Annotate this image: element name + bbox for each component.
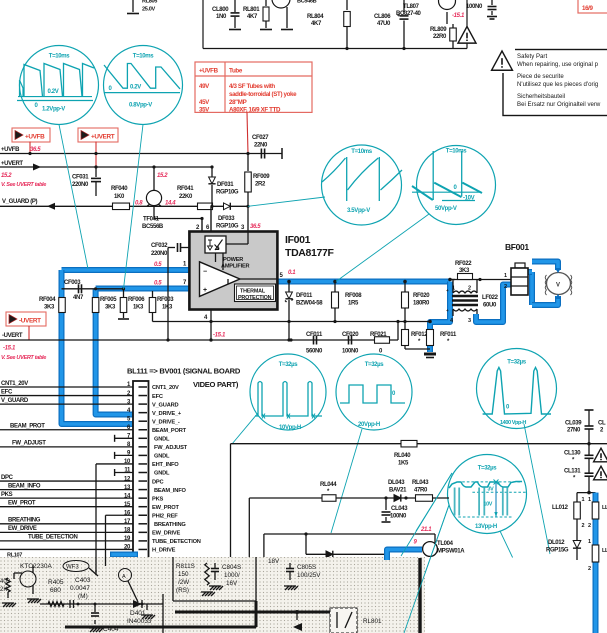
svg-text:BC556B: BC556B [142,224,164,230]
svg-text:0.8Vpp-V: 0.8Vpp-V [129,103,152,109]
svg-text:DL043: DL043 [388,480,405,486]
svg-text:3: 3 [468,318,471,324]
svg-text:RF003: RF003 [157,297,174,303]
svg-text:BZW04-58: BZW04-58 [296,301,323,307]
svg-text:LL0: LL0 [602,505,607,511]
svg-text:N'utilisez que les pieces d'or: N'utilisez que les pieces d'orig [517,81,598,88]
svg-text:3.5Vpp-V: 3.5Vpp-V [347,208,370,214]
svg-text:100N0: 100N0 [466,4,483,10]
svg-text:Tube: Tube [229,68,243,75]
svg-text:0.0047: 0.0047 [70,585,90,592]
svg-text:27N0: 27N0 [567,428,581,434]
svg-text:TL807: TL807 [403,4,420,10]
svg-text:4K7: 4K7 [247,14,258,20]
svg-text:CL800: CL800 [212,7,229,13]
svg-text:CF027: CF027 [252,135,269,141]
svg-text:RF040: RF040 [111,186,128,192]
svg-text:0.5: 0.5 [154,281,162,287]
svg-text:DL012: DL012 [548,540,565,546]
svg-text:T=32µs: T=32µs [365,362,385,368]
svg-text:0.2V: 0.2V [130,85,141,91]
svg-text:BREATHING: BREATHING [8,518,41,524]
svg-text:BEAM_PROT: BEAM_PROT [10,424,45,430]
svg-text:BL111 => BV001 (SIGNAL BOARD: BL111 => BV001 (SIGNAL BOARD [127,367,241,376]
svg-text:22K0: 22K0 [179,194,193,200]
svg-text:/2W: /2W [178,579,189,586]
svg-text:GNDL: GNDL [154,437,170,443]
svg-text:16V: 16V [226,580,238,587]
svg-text:25.0V: 25.0V [142,7,155,13]
svg-text:DPC: DPC [152,479,164,485]
svg-text:H_DRIVE: H_DRIVE [152,548,176,554]
svg-text:VIDEO PART): VIDEO PART) [193,380,239,389]
svg-text:16/9: 16/9 [582,5,594,12]
svg-text:100N0: 100N0 [390,514,407,520]
svg-text:V_GUARD (P): V_GUARD (P) [2,199,38,205]
svg-text:35V: 35V [199,107,210,114]
svg-text:FW_ADJUST: FW_ADJUST [12,441,46,447]
svg-text:1: 1 [588,539,591,545]
svg-text:4/3 SF Tubes with: 4/3 SF Tubes with [229,83,275,90]
svg-text:2: 2 [504,284,507,290]
svg-text:220N0: 220N0 [151,251,168,257]
svg-text:POWER: POWER [223,257,243,263]
svg-text:LL0: LL0 [602,548,607,554]
svg-text:T=10ms: T=10ms [446,149,467,155]
svg-text:RL805: RL805 [142,0,157,5]
svg-text:PHI2_REF: PHI2_REF [152,513,178,519]
svg-text:36.5: 36.5 [30,147,41,153]
svg-text:RF008: RF008 [345,293,362,299]
svg-text:RL801: RL801 [243,7,260,13]
svg-text:BF001: BF001 [505,242,529,252]
svg-text:1400 Vpp-H: 1400 Vpp-H [500,420,526,426]
svg-text:CL130: CL130 [564,451,581,457]
svg-text:15.2: 15.2 [1,173,12,179]
svg-text:10V: 10V [484,502,493,508]
svg-text:Piece de securite: Piece de securite [517,73,564,80]
svg-text:MPSW01A: MPSW01A [437,549,465,555]
svg-text:CF031: CF031 [72,175,89,181]
svg-text:RF020: RF020 [413,293,430,299]
svg-text:GNDL: GNDL [154,471,170,477]
svg-text:C403: C403 [75,577,91,584]
svg-text:TL004: TL004 [437,541,454,547]
svg-text:−: − [203,269,207,276]
svg-text:CL806: CL806 [374,14,391,20]
svg-text:DF033: DF033 [218,216,235,222]
svg-text:GNDL: GNDL [154,454,170,460]
svg-text:+UVERT: +UVERT [1,161,23,167]
svg-text:0.5: 0.5 [154,262,162,268]
svg-text:1K5: 1K5 [398,461,409,467]
svg-text:47R0: 47R0 [414,488,428,494]
svg-text:CL131: CL131 [564,469,581,475]
svg-text:560N0: 560N0 [306,349,323,355]
svg-text:3V: 3V [488,487,495,493]
svg-text:1K0: 1K0 [114,194,125,200]
svg-text:180R0: 180R0 [413,301,430,307]
svg-text:BC546B: BC546B [297,0,317,5]
svg-text:CL039: CL039 [565,421,582,427]
svg-text:EW_DRIVE: EW_DRIVE [8,526,37,532]
svg-text:3K3: 3K3 [459,268,470,274]
svg-text:100/25V: 100/25V [297,572,321,579]
svg-text:0.2V: 0.2V [48,89,59,95]
svg-text:A: A [122,574,126,580]
svg-text:EW_DRIVE: EW_DRIVE [152,531,181,537]
svg-text:A80XF, 16/9 XF TTD: A80XF, 16/9 XF TTD [229,107,281,114]
svg-text:+UVFB: +UVFB [1,147,20,153]
svg-text:IF001: IF001 [285,234,311,246]
svg-text:1: 1 [588,497,591,503]
svg-text:V. See UVERT table: V. See UVERT table [1,355,46,361]
svg-text:CF032: CF032 [151,243,168,249]
svg-text:100N0: 100N0 [342,349,359,355]
svg-text:14.4: 14.4 [165,201,176,207]
svg-text:THERMAL: THERMAL [240,289,266,295]
svg-text:RF011: RF011 [440,332,457,338]
svg-text:1.2Vpp-V: 1.2Vpp-V [42,107,65,113]
svg-text:CL043: CL043 [391,506,408,512]
svg-text:LF022: LF022 [482,295,499,301]
svg-text:R405: R405 [48,579,64,586]
svg-text:TF041: TF041 [143,217,160,223]
svg-text:1: 1 [504,273,507,279]
svg-text:1: 1 [582,497,585,503]
svg-text:RL043: RL043 [412,480,429,486]
svg-text:-15.1: -15.1 [213,333,226,339]
svg-text:T=32µs: T=32µs [507,360,527,366]
svg-text:18V: 18V [268,558,280,565]
svg-text:RF009: RF009 [253,174,270,180]
svg-text:EW_PROT: EW_PROT [152,505,179,511]
svg-text:10Vpp-H: 10Vpp-H [279,425,301,431]
svg-text:4K7: 4K7 [311,21,322,27]
svg-text:+UVFB: +UVFB [199,68,219,75]
svg-text:T=10ms: T=10ms [49,54,70,60]
svg-text:CF011: CF011 [306,332,323,338]
svg-text:680: 680 [50,587,61,594]
svg-text:13Vpp-H: 13Vpp-H [475,524,497,530]
svg-text:1000/: 1000/ [224,572,240,579]
svg-text:V_GUARD: V_GUARD [152,402,179,408]
svg-text:KTC2230A: KTC2230A [20,563,52,570]
svg-text:(RS): (RS) [176,587,189,594]
svg-text:(M): (M) [78,593,88,600]
svg-text:21.1: 21.1 [420,527,432,533]
svg-text:V. See UVERT table: V. See UVERT table [1,182,46,188]
svg-text:BREATHING: BREATHING [154,522,186,528]
svg-text:RGP10G: RGP10G [216,224,239,230]
svg-text:T=32µs: T=32µs [279,362,299,368]
svg-text:-15.1: -15.1 [3,346,16,352]
svg-text:FW_ADJUST: FW_ADJUST [154,445,188,451]
svg-text:3K3: 3K3 [44,305,55,311]
svg-text:T=10ms: T=10ms [351,149,372,155]
svg-text:TUBE_DETECTION: TUBE_DETECTION [152,539,201,545]
svg-text:36.5: 36.5 [250,224,261,230]
svg-text:BEAM_INFO: BEAM_INFO [154,488,186,494]
svg-text:BC327-40: BC327-40 [396,11,422,17]
svg-text:DF031: DF031 [217,182,234,188]
svg-text:WF3: WF3 [66,565,79,571]
svg-text:D401: D401 [130,610,146,617]
svg-text:TDA8177F: TDA8177F [285,247,334,259]
svg-text:When repairing, use original p: When repairing, use original p [517,61,599,68]
svg-text:DPC: DPC [1,475,14,481]
svg-text:150: 150 [178,571,189,578]
svg-text:2R2: 2R2 [255,182,266,188]
svg-text:RL809: RL809 [430,27,447,33]
svg-text:DF011: DF011 [296,293,313,299]
svg-text:RL044: RL044 [320,482,337,488]
svg-text:-UVERT: -UVERT [2,333,23,339]
svg-text:4N7: 4N7 [73,295,84,301]
svg-text:CNT1_20V: CNT1_20V [152,385,179,391]
svg-text:+UVFB: +UVFB [25,134,45,141]
svg-text:BEAM_INFO: BEAM_INFO [8,483,41,489]
svg-text:47U0: 47U0 [377,21,391,27]
svg-text:RGP15G: RGP15G [546,548,569,554]
svg-text:15.2: 15.2 [157,173,168,179]
svg-text:-15.1: -15.1 [452,13,465,19]
svg-text:1N0: 1N0 [216,14,227,20]
svg-text:22R0: 22R0 [433,34,447,40]
svg-text:RL804: RL804 [307,14,324,20]
svg-text:2: 2 [582,523,585,529]
svg-text:R811S: R811S [176,563,195,570]
svg-text:PKS: PKS [1,492,13,498]
svg-text:C804S: C804S [222,564,241,571]
svg-text:0.1: 0.1 [288,270,296,276]
svg-text:PKS: PKS [152,496,164,502]
svg-text:EHT_INFO: EHT_INFO [152,462,179,468]
svg-text:2: 2 [588,566,591,572]
svg-text:EFC: EFC [1,389,13,395]
svg-text:28"MP: 28"MP [229,99,247,106]
svg-text:CF020: CF020 [342,332,359,338]
svg-text:V: V [556,283,560,289]
svg-text:RF005: RF005 [100,297,117,303]
svg-text:RGP10G: RGP10G [216,190,239,196]
svg-text:CNT1_20V: CNT1_20V [1,381,28,387]
svg-text:Sicherheitsbauteil: Sicherheitsbauteil [517,93,565,100]
svg-text:V_DRIVE_+: V_DRIVE_+ [152,411,182,417]
svg-text:-10V: -10V [463,196,475,202]
svg-text:2: 2 [588,523,591,529]
svg-text:RF012: RF012 [411,332,428,338]
svg-text:3K3: 3K3 [105,305,116,311]
svg-text:RF041: RF041 [177,186,194,192]
svg-text:RL801: RL801 [363,618,382,625]
svg-text:50Vpp-V: 50Vpp-V [435,206,457,212]
svg-text:45V: 45V [199,99,210,106]
svg-text:T=10ms: T=10ms [133,54,154,60]
svg-text:RL040: RL040 [394,453,411,459]
svg-text:CL: CL [598,421,606,427]
svg-text:V_GUARD: V_GUARD [1,398,29,404]
svg-text:1R5: 1R5 [348,301,359,307]
svg-text:RF004: RF004 [39,297,56,303]
svg-text:EFC: EFC [152,394,163,400]
svg-text:-UVERT: -UVERT [19,318,41,325]
svg-text:C805S: C805S [297,564,316,571]
svg-text:EW_PROT: EW_PROT [8,501,36,507]
svg-text:BAV21: BAV21 [389,488,407,494]
svg-text:RF006: RF006 [128,297,145,303]
svg-text:1K3: 1K3 [133,305,144,311]
svg-text:T=32µs: T=32µs [478,466,498,472]
svg-text:LL012: LL012 [552,505,569,511]
svg-text:Bei Ersatz nur Originalteil ve: Bei Ersatz nur Originalteil verw [517,101,601,108]
svg-text:60U0: 60U0 [483,303,497,309]
svg-text:49V: 49V [199,83,210,90]
svg-text:+: + [203,287,207,294]
svg-text:V_DRIVE_-: V_DRIVE_- [152,419,180,425]
svg-text:saddle-torroidal (ST) yoke: saddle-torroidal (ST) yoke [229,91,297,98]
svg-text:20Vpp-H: 20Vpp-H [358,422,380,428]
svg-text:BEAM_PORT: BEAM_PORT [152,428,187,434]
svg-text:TUBE_DETECTION: TUBE_DETECTION [28,535,77,541]
svg-text:RF022: RF022 [455,261,472,267]
svg-text:220N0: 220N0 [72,182,89,188]
svg-text:0.8: 0.8 [135,201,143,207]
svg-text:+UVERT: +UVERT [91,134,115,141]
svg-text:AMPLIFIER: AMPLIFIER [221,264,250,270]
svg-text:PROTECTION: PROTECTION [238,295,272,301]
svg-text:Safety Part: Safety Part [517,53,547,60]
svg-text:22N0: 22N0 [254,143,268,149]
